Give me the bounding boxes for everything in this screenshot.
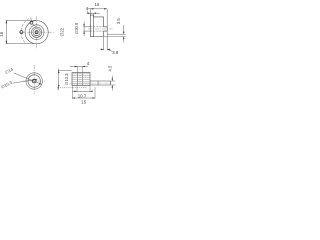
dimension D20.5 left of view B	[83, 22, 90, 37]
dimension 4 top-left of view B	[87, 10, 100, 17]
svg-text:15: 15	[94, 2, 99, 7]
dimension D10.3 left of view D	[58, 69, 87, 90]
shaft top and bottom	[90, 81, 111, 85]
bore circle D14	[31, 27, 41, 37]
hidden bore lines	[90, 27, 103, 31]
dimension 3.8 bottom-right of view B	[100, 37, 112, 51]
leader line D14	[14, 73, 41, 84]
center small bore	[35, 31, 38, 34]
arrowhead D10.3 leader	[35, 79, 38, 81]
hub outline	[94, 17, 104, 37]
svg-text:∅22: ∅22	[59, 27, 64, 36]
svg-text:15: 15	[81, 100, 86, 105]
stub shaft	[104, 27, 108, 31]
svg-text:4.5: 4.5	[107, 65, 112, 71]
leader bent segment up	[30, 18, 32, 22]
knurl texture	[72, 73, 89, 85]
centerline vertical C	[33, 65, 35, 94]
centerline horizontal C	[23, 80, 45, 82]
dimension 4.5 right of view D	[111, 76, 116, 91]
flange outer circle	[21, 18, 29, 42]
centerline vertical A	[36, 16, 38, 49]
axis line view D	[70, 82, 112, 84]
svg-text:3.5: 3.5	[116, 18, 121, 24]
dimension 16 left of view A	[6, 20, 36, 43]
arrowhead D14 leader	[39, 83, 42, 85]
dimension 4 top of view D	[70, 67, 88, 73]
knurl block outline	[72, 73, 90, 86]
leader balloon ring	[30, 21, 33, 24]
dimension 15 bottom of view D	[72, 86, 95, 99]
svg-text:3.8: 3.8	[112, 50, 119, 55]
axis line view B	[88, 28, 113, 30]
center small bore	[32, 79, 36, 83]
knurl section line left	[76, 73, 78, 86]
bore circle D10.3	[33, 29, 40, 36]
svg-text:2: 2	[57, 87, 59, 91]
outer circle D14	[26, 73, 42, 89]
centerline horizontal A	[20, 31, 54, 33]
svg-text:∅10.3: ∅10.3	[64, 73, 69, 85]
flange plate rect	[90, 15, 93, 37]
inner circle D10.3	[28, 75, 40, 87]
bolt circle ring	[25, 21, 48, 44]
svg-text:∅20.5: ∅20.5	[74, 22, 79, 34]
leader diagonal into view	[33, 24, 37, 27]
dimension 10.7 bottom of view D	[73, 86, 93, 92]
dimension 3.5 right of view B	[104, 25, 126, 42]
svg-text:10.7: 10.7	[78, 93, 87, 98]
shaft step	[97, 81, 99, 85]
leader line D10.3	[13, 79, 37, 83]
knurl section line right	[81, 73, 83, 86]
bolt hole left	[20, 31, 23, 34]
svg-text:16: 16	[0, 31, 4, 36]
dimension 15 top of view B	[88, 9, 108, 50]
hub circle D20.5	[29, 25, 44, 40]
